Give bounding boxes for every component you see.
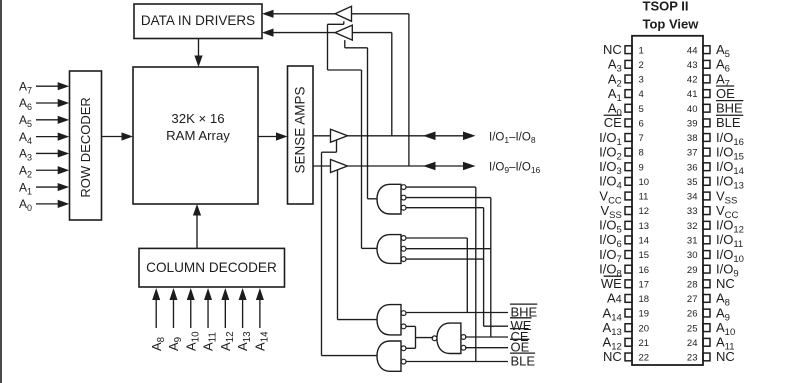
wire ROW DECODER to RAM Array arrow [102, 136, 124, 138]
svg-text:RAM Array: RAM Array [166, 128, 230, 143]
svg-text:27: 27 [687, 294, 698, 305]
pin 13 pad [625, 221, 632, 229]
wire BHE net [406, 312, 508, 314]
svg-text:Top View: Top View [643, 16, 700, 31]
pin 8 pad [625, 148, 632, 156]
pin 7 pad [625, 134, 632, 142]
block SENSE AMPS [288, 66, 314, 204]
svg-text:43: 43 [687, 60, 698, 71]
pin 29 pad [703, 265, 710, 273]
wire DATA IN DRIVERS to RAM Array arrow [198, 39, 200, 59]
package TSOP II body [632, 36, 703, 365]
svg-text:6: 6 [639, 118, 644, 129]
pin 17 pad [625, 280, 632, 288]
svg-text:29: 29 [687, 265, 698, 276]
pin 27 pad [703, 295, 710, 303]
pin 9 pad [625, 163, 632, 171]
pin 22 pad [625, 353, 632, 361]
svg-text:40: 40 [687, 104, 698, 115]
wire T2 output to DATA IN DRIVERS arrow [272, 32, 335, 34]
pin 37 pad [703, 148, 710, 156]
pin 39 pad [703, 119, 710, 127]
svg-text:A4: A4 [607, 291, 622, 306]
wire GB input WE [406, 258, 484, 260]
wire S1 enable path [336, 140, 338, 152]
pin 35 pad [703, 177, 710, 185]
block 32K x 16 RAM Array [133, 67, 258, 204]
svg-text:1: 1 [639, 45, 644, 56]
pin 19 pad [625, 309, 632, 317]
wire CE net [465, 336, 508, 338]
pin 44 pad [703, 46, 710, 54]
block DATA IN DRIVERS [134, 4, 262, 39]
pin 5 pad [625, 104, 632, 112]
buffer S1 (read data low byte) [313, 135, 331, 137]
wire GB input BHE [406, 237, 467, 239]
pin 25 pad [703, 324, 710, 332]
svg-text:I/O1–I/O8: I/O1–I/O8 [489, 131, 536, 145]
svg-text:32K × 16: 32K × 16 [171, 111, 224, 126]
pin 15 pad [625, 251, 632, 259]
pin 34 pad [703, 192, 710, 200]
wire GE output to GC and GD inputs [406, 325, 416, 327]
svg-text:NC: NC [603, 42, 622, 57]
wire OE net [465, 347, 508, 349]
svg-text:14: 14 [639, 235, 650, 246]
buffer T1 (write data high byte) [335, 6, 351, 21]
svg-text:OE: OE [511, 340, 530, 355]
svg-text:11: 11 [639, 192, 649, 203]
svg-text:17: 17 [639, 279, 650, 290]
svg-text:16: 16 [639, 265, 650, 276]
and-gate GC (read enable high byte decode) [377, 305, 401, 335]
buffer S2 (read data high byte) [313, 165, 331, 167]
wire T2 input from I/O1 bus [352, 32, 392, 34]
pin 11 pad [625, 192, 632, 200]
svg-text:37: 37 [687, 148, 698, 159]
wire GB input CE [406, 248, 491, 250]
svg-text:DATA IN DRIVERS: DATA IN DRIVERS [141, 13, 255, 28]
svg-text:NC: NC [603, 349, 622, 364]
pin 33 pad [703, 207, 710, 215]
svg-text:BHE: BHE [716, 101, 743, 116]
svg-text:34: 34 [687, 192, 698, 203]
pin 6 pad [625, 119, 632, 127]
wire BLE net [406, 361, 508, 363]
pin 4 pad [625, 90, 632, 98]
pin 3 pad [625, 75, 632, 83]
svg-text:8: 8 [639, 148, 644, 159]
pin 16 pad [625, 265, 632, 273]
wire GA output [368, 198, 378, 200]
and-gate GA (write enable low byte decode) [377, 184, 401, 214]
svg-text:36: 36 [687, 162, 698, 173]
svg-text:BLE: BLE [511, 353, 536, 368]
input A11 label and wire [207, 297, 209, 328]
pin 38 pad [703, 134, 710, 142]
svg-text:10: 10 [639, 177, 650, 188]
svg-text:35: 35 [687, 177, 698, 188]
input A8 label and wire [155, 297, 157, 328]
pin 43 pad [703, 60, 710, 68]
pin 21 pad [625, 338, 632, 346]
pin 31 pad [703, 236, 710, 244]
svg-text:OE: OE [716, 86, 735, 101]
svg-text:41: 41 [687, 89, 698, 100]
pin 2 pad [625, 60, 632, 68]
input A12 label and wire [224, 297, 226, 328]
pin 32 pad [703, 221, 710, 229]
block ROW DECODER [70, 71, 102, 220]
wire GA input WE [406, 207, 484, 209]
svg-text:31: 31 [687, 235, 698, 246]
input A9 label and wire [172, 297, 174, 328]
svg-text:13: 13 [639, 221, 650, 232]
svg-text:28: 28 [687, 279, 698, 290]
svg-text:9: 9 [639, 162, 644, 173]
svg-text:38: 38 [687, 133, 698, 144]
pin 14 pad [625, 236, 632, 244]
svg-text:30: 30 [687, 250, 698, 261]
svg-text:NC: NC [716, 276, 735, 291]
pin 18 pad [625, 295, 632, 303]
pin 41 pad [703, 90, 710, 98]
wire COLUMN DECODER to RAM Array arrow [196, 213, 198, 248]
pin 26 pad [703, 309, 710, 317]
input A13 label and wire [242, 297, 244, 328]
svg-text:ROW DECODER: ROW DECODER [78, 97, 93, 197]
svg-text:COLUMN DECODER: COLUMN DECODER [146, 260, 277, 275]
svg-text:32: 32 [687, 221, 698, 232]
svg-text:5: 5 [639, 104, 644, 115]
pin 23 pad [703, 353, 710, 361]
svg-text:39: 39 [687, 118, 698, 129]
wire T1 input from I/O9 bus [352, 13, 409, 15]
wire I/O9-I/O16 bus with bidirectional arrows [348, 165, 467, 167]
svg-text:NC: NC [716, 349, 735, 364]
wire T1 output to DATA IN DRIVERS arrow [272, 13, 335, 15]
pin 20 pad [625, 324, 632, 332]
and-gate GB (write enable high byte decode) [377, 235, 401, 264]
wire I/O1-I/O8 bus with bidirectional arrows [348, 135, 467, 137]
wire GA input BLE vertical [406, 186, 476, 188]
svg-text:WE: WE [601, 276, 622, 291]
svg-text:4: 4 [639, 89, 644, 100]
pin 12 pad [625, 207, 632, 215]
wire RAM Array to SENSE AMPS arrow [258, 136, 278, 138]
svg-text:CE: CE [604, 115, 622, 130]
svg-text:42: 42 [687, 75, 698, 86]
wire GB output [362, 247, 378, 249]
input A10 label and wire [190, 297, 192, 328]
wire WE net [484, 325, 508, 327]
wire GA input CE [406, 197, 491, 199]
buffer T2 (write data low byte) [335, 25, 352, 40]
pin 42 pad [703, 75, 710, 83]
svg-text:22: 22 [639, 353, 650, 364]
svg-text:3: 3 [639, 75, 644, 86]
svg-text:20: 20 [639, 323, 650, 334]
block COLUMN DECODER [139, 248, 285, 287]
svg-text:25: 25 [687, 323, 698, 334]
pin 40 pad [703, 104, 710, 112]
pin 36 pad [703, 163, 710, 171]
svg-text:26: 26 [687, 309, 698, 320]
pin 30 pad [703, 251, 710, 259]
pin 1 pad [625, 46, 632, 54]
svg-text:15: 15 [639, 250, 650, 261]
wire S2 enable path [337, 170, 339, 320]
svg-text:12: 12 [639, 206, 650, 217]
wire T2 enable path [344, 40, 346, 48]
svg-text:2: 2 [639, 60, 644, 71]
svg-text:21: 21 [639, 338, 650, 349]
pin 10 pad [625, 177, 632, 185]
pin 28 pad [703, 280, 710, 288]
svg-text:SENSE AMPS: SENSE AMPS [293, 86, 308, 173]
svg-text:18: 18 [639, 294, 650, 305]
input A14 label and wire [259, 297, 261, 328]
svg-text:19: 19 [639, 309, 650, 320]
svg-text:TSOP II: TSOP II [643, 0, 689, 13]
wire T1 enable path [343, 21, 345, 24]
nand-gate GE (chip/output enable decode) [437, 323, 461, 353]
pin 24 pad [703, 338, 710, 346]
svg-text:BLE: BLE [716, 115, 741, 130]
svg-text:7: 7 [639, 133, 644, 144]
svg-text:44: 44 [687, 45, 698, 56]
figure left border line [0, 0, 2, 383]
svg-text:33: 33 [687, 206, 698, 217]
svg-text:23: 23 [687, 353, 698, 364]
and-gate GD (read enable low byte decode) [377, 341, 401, 371]
svg-text:24: 24 [687, 338, 698, 349]
